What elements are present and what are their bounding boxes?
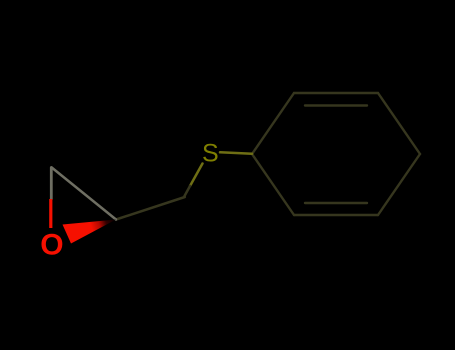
wire inner double bond bottom <box>305 202 367 204</box>
bond CH2(ring)-O oxygen half (red) <box>49 199 52 228</box>
wire ring edge lower-left <box>252 154 294 215</box>
wire ring edge top <box>294 92 378 94</box>
bond S-phenyl <box>220 152 252 154</box>
wire inner double bond top <box>305 104 367 106</box>
bond CH2(ring)-O carbon half <box>50 168 53 200</box>
wire ring edge upper-left <box>252 93 294 154</box>
bond S-CH2 carbon half <box>185 186 191 196</box>
svg-text:O: O <box>40 228 63 261</box>
bond CH2-C* <box>116 197 185 220</box>
svg-text:S: S <box>202 140 219 168</box>
wedge bond C*-O (stereo, red with black carbon tip) <box>63 220 117 244</box>
wire ring edge upper-right <box>378 93 420 154</box>
bond C*-CH2(ring) of epoxide <box>52 168 116 220</box>
wire ring edge lower-right <box>378 154 420 215</box>
bond S-CH2 olive half <box>190 164 203 187</box>
wire ring edge bottom <box>294 214 378 216</box>
benzene ring C6H5 <box>252 93 420 215</box>
